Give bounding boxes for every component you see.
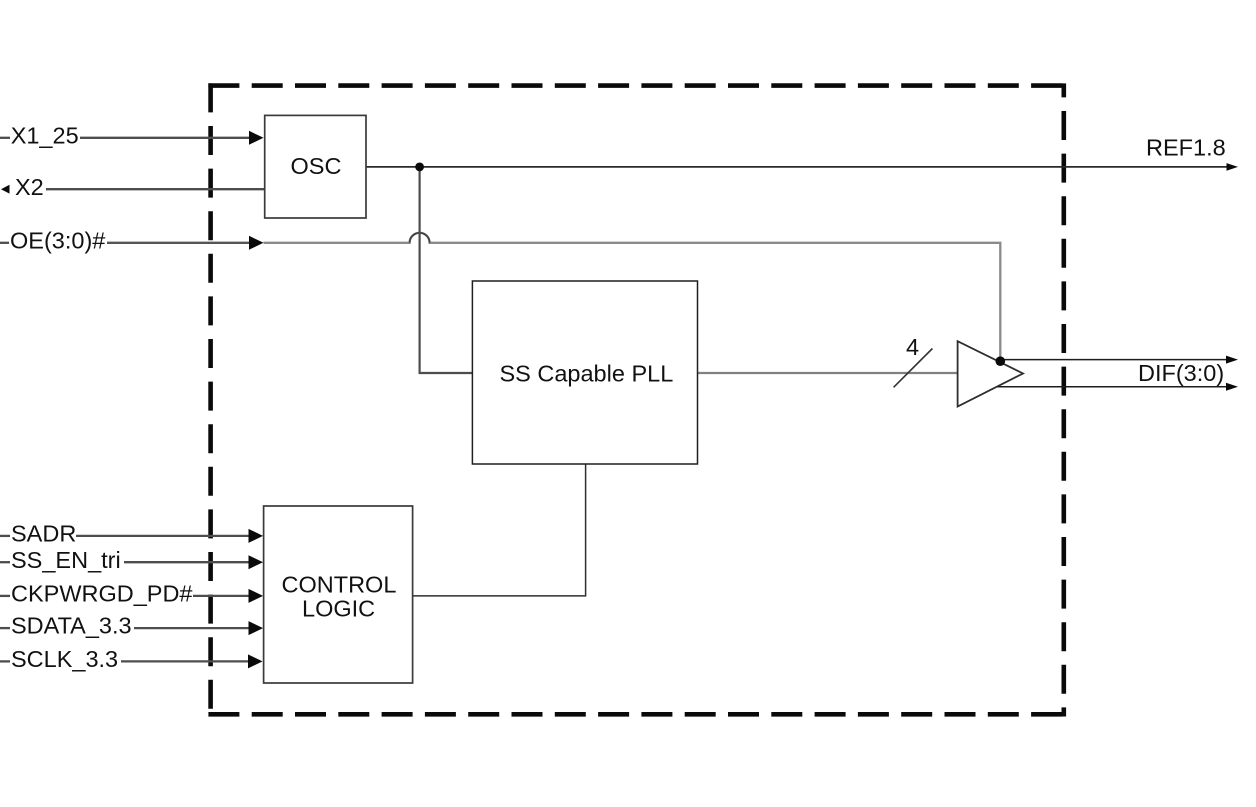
svg-text:OSC: OSC	[291, 153, 342, 179]
svg-text:LOGIC: LOGIC	[302, 595, 375, 621]
svg-text:X1_25: X1_25	[11, 122, 79, 148]
svg-text:SDATA_3.3: SDATA_3.3	[11, 613, 132, 639]
svg-text:SS_EN_tri: SS_EN_tri	[11, 547, 121, 573]
svg-text:OE(3:0)#: OE(3:0)#	[10, 227, 105, 253]
svg-text:SADR: SADR	[11, 521, 76, 547]
svg-text:X2: X2	[15, 174, 44, 200]
svg-text:DIF(3:0): DIF(3:0)	[1138, 360, 1224, 386]
svg-text:SS Capable PLL: SS Capable PLL	[500, 360, 674, 386]
svg-text:CONTROL: CONTROL	[282, 571, 397, 597]
svg-text:4: 4	[906, 334, 919, 360]
svg-text:REF1.8: REF1.8	[1146, 134, 1226, 160]
svg-text:SCLK_3.3: SCLK_3.3	[11, 646, 118, 672]
svg-text:CKPWRGD_PD#: CKPWRGD_PD#	[11, 581, 193, 607]
